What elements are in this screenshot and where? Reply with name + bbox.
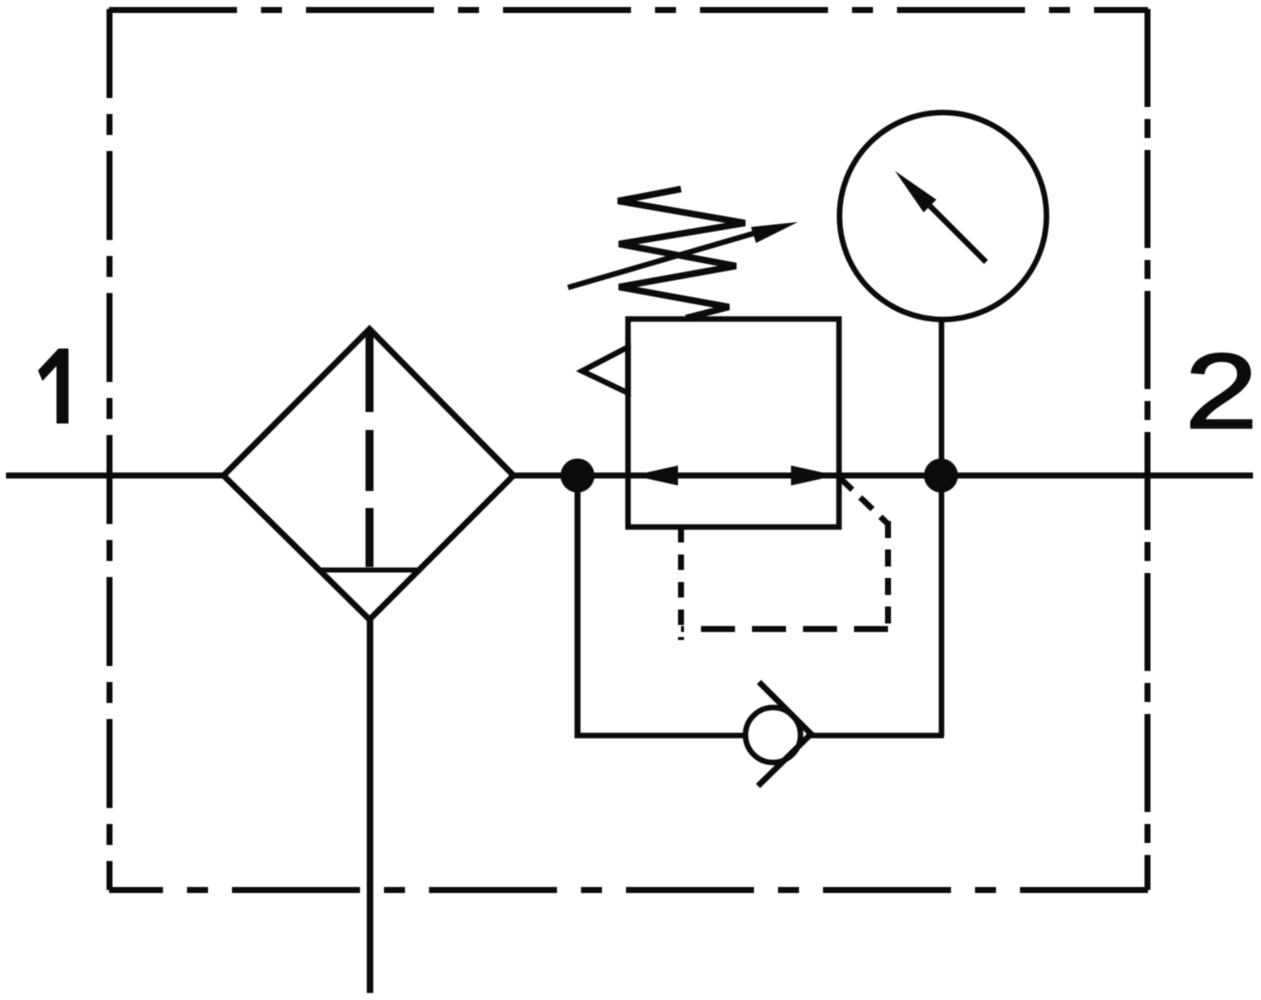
- node A: junction dot left: [561, 459, 595, 493]
- regulator R1: left flow arrowhead: [633, 466, 678, 486]
- pilot line (dashed): right vertical: [885, 521, 891, 629]
- pilot line (dashed): bottom run: [681, 626, 888, 632]
- regulator R1: adjustment arrowhead: [751, 222, 798, 243]
- check valve V1: seat: [758, 682, 811, 786]
- enclosure frame left (dash-dot): [107, 9, 113, 890]
- pilot line (dashed): left vertical to regulator bottom: [678, 527, 684, 640]
- filter F1: dashed filter element line: [366, 329, 374, 567]
- pressure gauge G1: needle arrowhead: [895, 171, 936, 212]
- enclosure frame top (dash-dot): [109, 7, 1148, 13]
- port label 1: [38, 349, 69, 424]
- pressure gauge G1: needle shaft: [930, 206, 986, 262]
- regulator R1: body box: [628, 319, 839, 527]
- wire: filter drain line: [367, 619, 374, 993]
- wire: bypass bottom left segment: [575, 733, 747, 739]
- regulator R1: adjustment spring: [618, 189, 745, 318]
- filter F1: condensate separator line: [317, 568, 421, 573]
- wire: bypass left vertical: [575, 476, 581, 739]
- regulator R1: relief vent triangle: [582, 347, 628, 393]
- port label 2: [1185, 332, 1258, 451]
- wire: bypass right vertical and gauge stem: [939, 321, 945, 736]
- enclosure frame right (dash-dot): [1145, 9, 1151, 890]
- svg-text:2: 2: [1185, 332, 1258, 451]
- check valve V1: ball: [746, 708, 801, 763]
- regulator R1: right flow arrowhead: [791, 466, 836, 486]
- wire: main line from filter outlet through regulator to port 2: [513, 473, 1253, 479]
- pilot line (dashed): diagonal from outlet: [840, 478, 888, 524]
- filter F1: diamond body: [224, 329, 514, 620]
- wire: bypass bottom right segment: [811, 733, 944, 739]
- pressure gauge G1: dial: [840, 113, 1047, 320]
- enclosure frame bottom (dash-dot): [109, 887, 1148, 893]
- wire: main line from port 1 to filter inlet: [6, 473, 225, 479]
- regulator R1: adjustment arrow shaft: [568, 233, 755, 288]
- node B: junction dot right: [924, 459, 958, 493]
